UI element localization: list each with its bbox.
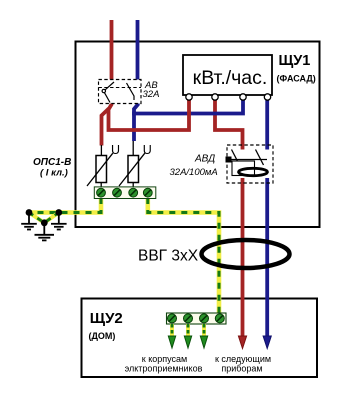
cable marker ellipse VVG [202, 240, 290, 268]
strip X1 screw 2 [113, 188, 122, 197]
wire L arrow (red) [238, 336, 246, 349]
svg-text:32А/100мА: 32А/100мА [170, 167, 218, 178]
svg-text:U: U [111, 143, 120, 157]
svg-text:(ФАСАД): (ФАСАД) [277, 74, 316, 84]
strip X2 screw 2 [184, 314, 193, 323]
PE arrow 1 [168, 336, 175, 348]
svg-text:( I кл.): ( I кл.) [40, 168, 68, 179]
svg-text:ЩУ2: ЩУ2 [90, 310, 123, 327]
svg-text:АВД: АВД [194, 154, 215, 165]
ground electrode 3 [35, 223, 55, 241]
arrester F2 strike diagonal [119, 153, 145, 186]
wire L breaker output to meter terminal 1 (red) [109, 98, 190, 131]
meter terminal 4 [264, 94, 270, 100]
surge arrester F2 (OPS1-B) [128, 156, 139, 183]
PE diagonal to earth electrode 3 (right) [44, 213, 59, 223]
PE wire strip1 to SCHU2 strip (yellow-green) [148, 198, 219, 314]
PE arrow 3 [200, 336, 207, 348]
wire L meter terminal 2 to RCD input (red) [215, 98, 243, 152]
RCD inner white body [229, 150, 271, 179]
meter terminal 1 [186, 94, 192, 100]
PE terminal strip X2 in SCHU2 [167, 313, 227, 324]
surge arrester lead top 1 [100, 145, 102, 156]
svg-text:U: U [143, 143, 152, 157]
RCD AVD dashed box [227, 145, 273, 183]
panel box SCHU1 (ЩУ1 ФАСАД) [76, 42, 320, 228]
node junction dot 2 [55, 209, 62, 216]
breaker pole 1 blade [105, 82, 114, 90]
svg-text:к следующим: к следующим [215, 354, 271, 364]
wire L feeder top (red) [110, 20, 114, 81]
node junction dot 3 [41, 219, 48, 226]
svg-text:(ДОМ): (ДОМ) [89, 331, 116, 341]
circuit breaker AB 32A (dashed box) [99, 80, 142, 104]
wire N breaker output (blue) [134, 102, 138, 141]
PE outgoing stub 2 [186, 324, 190, 337]
svg-text:ЩУ1: ЩУ1 [279, 53, 311, 69]
panel box SCHU2 (ЩУ2 ДОМ) [82, 299, 318, 378]
wire N arrow (blue) [263, 336, 271, 349]
svg-text:ОПС1-В: ОПС1-В [33, 157, 71, 168]
RCD pole 2 blade [256, 150, 264, 166]
strip X1 screw 3 [129, 188, 138, 197]
svg-text:32А: 32А [143, 89, 160, 100]
arrester F1 strike diagonal [87, 153, 113, 186]
arrester F1 lead bottom [100, 183, 102, 189]
svg-text:к корпусам: к корпусам [142, 354, 187, 364]
surge arrester lead top 2 [132, 141, 134, 156]
RCD torus (ellipse) [239, 168, 268, 175]
wire L branch to arrester F1 (red) [102, 109, 109, 146]
RCD test button (black square) [226, 157, 232, 163]
wire N feeder top (blue) [136, 20, 140, 81]
RCD body rectangle [232, 161, 255, 176]
breaker pole 1 contact [102, 89, 105, 92]
strip X2 screw 4 [215, 314, 224, 323]
strip X1 screw 1 [97, 188, 106, 197]
surge arrester F1 (OPS1-B) [96, 156, 107, 183]
arrester F2 lead bottom [132, 183, 134, 189]
ground electrode 2 [51, 213, 67, 230]
strip X2 screw 3 [200, 314, 209, 323]
meter terminal 3 [240, 94, 246, 100]
breaker pole 2 blade [127, 83, 135, 100]
strip X1 screw 4 [143, 188, 152, 197]
meter terminal 2 [212, 94, 218, 100]
svg-text:элктроприемников: элктроприемников [125, 364, 203, 374]
RCD pole 1 blade [232, 150, 240, 166]
wire N branch to meter terminal 3 (blue) [134, 98, 243, 114]
PE terminal strip X1 in SCHU1 [94, 187, 156, 199]
PE outgoing stub 3 [202, 324, 206, 337]
ground electrode 1 [21, 213, 37, 230]
PE arrow 2 [184, 336, 191, 348]
node junction dot 1 [26, 209, 33, 216]
breaker pole 1 lead [104, 93, 110, 103]
svg-text:ВВГ 3хХ: ВВГ 3хХ [138, 248, 199, 265]
svg-text:приборам: приборам [221, 364, 262, 374]
RCD link line [232, 159, 268, 161]
PE diagonal to earth electrode 3 (left) [29, 213, 44, 223]
svg-text:кВт./час.: кВт./час. [193, 67, 268, 89]
kWh meter box [183, 55, 272, 95]
PE wire strip1 to ground (yellow-green) [29, 198, 101, 213]
wire N meter terminal 4 down (blue) [265, 98, 269, 152]
PE outgoing stub 1 [170, 324, 174, 337]
strip X2 screw 1 [168, 314, 177, 323]
wire N down to SCHU2 (blue) [265, 177, 269, 339]
wire L RCD output down to SCHU2 (red) [241, 177, 245, 339]
